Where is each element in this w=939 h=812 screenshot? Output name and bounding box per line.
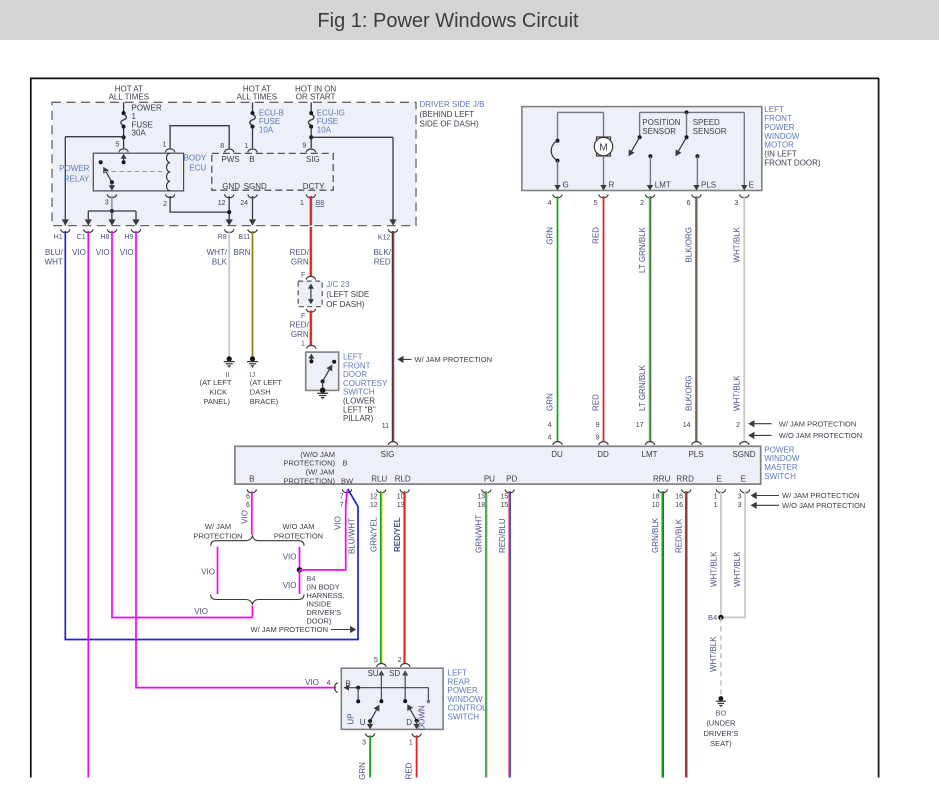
svg-text:MOTOR: MOTOR bbox=[764, 141, 794, 150]
wire: VIO right branch lower bbox=[299, 570, 301, 594]
svg-text:7: 7 bbox=[340, 502, 344, 509]
svg-text:J/C 23: J/C 23 bbox=[326, 280, 350, 289]
svg-text:3: 3 bbox=[738, 493, 742, 500]
svg-text:POWER: POWER bbox=[59, 164, 89, 173]
svg-text:5: 5 bbox=[594, 200, 598, 207]
body ECU GND terminal bbox=[218, 182, 240, 207]
svg-text:LEFT: LEFT bbox=[764, 105, 784, 114]
svg-text:GRN/WHT: GRN/WHT bbox=[475, 515, 484, 553]
svg-text:RED/BLK: RED/BLK bbox=[674, 518, 683, 553]
svg-text:SENSOR: SENSOR bbox=[642, 127, 676, 136]
svg-text:B: B bbox=[343, 459, 348, 468]
svg-text:VIO: VIO bbox=[201, 567, 215, 576]
svg-text:2: 2 bbox=[398, 657, 402, 664]
svg-text:SIG: SIG bbox=[306, 155, 320, 164]
svg-text:PROTECTION: PROTECTION bbox=[193, 531, 242, 540]
svg-text:BLK: BLK bbox=[212, 257, 228, 266]
svg-text:W/ JAM: W/ JAM bbox=[205, 522, 231, 531]
svg-text:U: U bbox=[360, 718, 366, 727]
svg-text:10A: 10A bbox=[317, 125, 332, 134]
wire: DCTY red/grn inside J/B bbox=[311, 196, 312, 226]
svg-text:WINDOW: WINDOW bbox=[764, 454, 800, 463]
svg-text:WINDOW: WINDOW bbox=[448, 695, 484, 704]
svg-text:4: 4 bbox=[548, 200, 552, 207]
svg-text:COURTESY: COURTESY bbox=[343, 379, 388, 388]
connector H1 bbox=[54, 219, 70, 241]
svg-text:SGND: SGND bbox=[244, 182, 267, 191]
svg-text:7: 7 bbox=[340, 493, 344, 500]
svg-text:H8: H8 bbox=[100, 234, 109, 241]
svg-text:9: 9 bbox=[596, 434, 600, 441]
svg-text:BLU/: BLU/ bbox=[45, 248, 64, 257]
label: WHT/BLK (dashed) bbox=[709, 636, 718, 672]
rear switch bottom connectors bbox=[366, 734, 422, 737]
ground BO (UNDER DRIVERS SEAT) bbox=[704, 696, 739, 748]
fuse ECU-IG FUSE 10A bbox=[308, 102, 344, 148]
label: RED (lower) bbox=[592, 394, 601, 411]
label: LEFT REAR POWER WINDOW CONTROL SWITCH bbox=[448, 668, 488, 721]
label: VIO (BW drop) bbox=[334, 516, 343, 530]
label: BLK/ORG (upper) bbox=[685, 227, 694, 263]
brace (bottom) bbox=[211, 594, 304, 604]
svg-text:H9: H9 bbox=[124, 234, 133, 241]
wire: R8 WHT/BLK to ground II bbox=[227, 231, 232, 362]
label: BLU/WHT (BW wire) bbox=[347, 518, 356, 554]
motor bottom connectors bbox=[553, 194, 749, 197]
label: WHT/BLK (lower) bbox=[732, 375, 741, 411]
rear switch B connector bbox=[335, 679, 351, 692]
svg-text:4: 4 bbox=[327, 680, 331, 687]
svg-text:DD: DD bbox=[597, 450, 609, 459]
svg-text:DU: DU bbox=[551, 450, 563, 459]
svg-text:2: 2 bbox=[163, 201, 167, 208]
svg-text:1: 1 bbox=[163, 142, 167, 149]
svg-text:E: E bbox=[717, 474, 722, 483]
wire: B VIO to brace bbox=[251, 491, 253, 535]
svg-text:BO: BO bbox=[715, 709, 726, 718]
svg-text:9: 9 bbox=[302, 143, 306, 150]
svg-text:REAR: REAR bbox=[448, 677, 470, 686]
rear switch SU lever bbox=[367, 670, 385, 729]
svg-text:VIO: VIO bbox=[305, 678, 319, 687]
svg-text:GRN: GRN bbox=[291, 258, 309, 267]
svg-text:H1: H1 bbox=[54, 234, 63, 241]
annotation: W/ JAM PROTECTION (SIG wire) bbox=[397, 355, 492, 364]
ground II (AT LEFT KICK PANEL) bbox=[200, 362, 235, 406]
svg-text:RELAY: RELAY bbox=[64, 174, 90, 183]
svg-text:F: F bbox=[301, 272, 305, 279]
svg-text:GRN/YEL: GRN/YEL bbox=[370, 516, 379, 552]
speed sensor switch bbox=[676, 112, 700, 190]
wire: relay pin 2 to GND junction bbox=[170, 196, 229, 212]
wire: LMT LT GRN/BLK to LMT bbox=[650, 196, 651, 442]
svg-text:18: 18 bbox=[477, 502, 485, 509]
motor pin numbers bbox=[548, 200, 739, 207]
svg-text:RRU: RRU bbox=[653, 474, 671, 483]
body ECU pin 9 SIG bbox=[302, 143, 319, 164]
wire: U GRN down bbox=[369, 735, 371, 777]
label: WHT/BLK (upper) bbox=[732, 226, 741, 262]
wire: H8 VIO to brace tail bbox=[112, 231, 252, 618]
wire: PD RED/BLU bbox=[509, 491, 510, 777]
left front door courtesy switch box bbox=[306, 345, 339, 390]
svg-text:12: 12 bbox=[370, 493, 378, 500]
svg-text:WHT/: WHT/ bbox=[207, 248, 228, 257]
wire: E1 WHT/BLK to B4 bbox=[720, 491, 722, 617]
left front power window motor box bbox=[522, 107, 762, 191]
rear switch top connectors bbox=[377, 664, 410, 667]
svg-text:PROTECTION): PROTECTION) bbox=[283, 476, 335, 485]
label: LT GRN/BLK (lower) bbox=[638, 364, 647, 411]
wire: E WHT/BLK to SGND bbox=[743, 196, 745, 442]
relay pin 5 connector bbox=[115, 142, 128, 153]
svg-text:1: 1 bbox=[714, 493, 718, 500]
label: VIO (H8) bbox=[96, 248, 110, 257]
svg-text:SWITCH: SWITCH bbox=[448, 713, 480, 722]
position sensor switch bbox=[629, 112, 654, 190]
svg-text:D: D bbox=[406, 718, 412, 727]
motor E wire bbox=[741, 112, 747, 190]
svg-text:VIO: VIO bbox=[72, 248, 86, 257]
label: HOT IN ON OR START (ECU-IG fuse) bbox=[295, 84, 336, 101]
svg-text:GRN/BLK: GRN/BLK bbox=[651, 517, 660, 553]
wire: VIO left branch bbox=[217, 547, 219, 594]
svg-text:RED: RED bbox=[592, 394, 601, 411]
label: GRN/WHT bbox=[475, 515, 484, 553]
svg-text:WHT/BLK: WHT/BLK bbox=[732, 226, 741, 262]
label: RED/BLU bbox=[498, 518, 507, 553]
svg-text:W/ JAM PROTECTION: W/ JAM PROTECTION bbox=[415, 355, 493, 364]
svg-text:SWITCH: SWITCH bbox=[343, 388, 375, 397]
relay pin 2 connector bbox=[163, 194, 175, 208]
svg-text:SENSOR: SENSOR bbox=[693, 127, 727, 136]
svg-text:E: E bbox=[749, 181, 754, 190]
label: VIO (right branch upper) bbox=[283, 553, 297, 562]
svg-text:LEFT: LEFT bbox=[448, 668, 468, 677]
svg-text:RED/: RED/ bbox=[290, 320, 310, 329]
svg-text:(AT LEFT: (AT LEFT bbox=[200, 378, 232, 387]
label: UP U bbox=[346, 713, 365, 726]
svg-text:PD: PD bbox=[506, 474, 517, 483]
label: B4 (IN BODY HARNESS INSIDE DRIVERS DOOR) bbox=[306, 574, 344, 626]
svg-text:RED/: RED/ bbox=[290, 248, 310, 257]
wire: VIO from B4 to BW bbox=[300, 491, 348, 570]
svg-text:(W/ JAM: (W/ JAM bbox=[306, 468, 335, 477]
wire: G GRN to DU bbox=[557, 196, 559, 442]
svg-text:(W/O JAM: (W/O JAM bbox=[300, 450, 335, 459]
svg-text:30A: 30A bbox=[132, 129, 147, 138]
wire: RRU GRN/BLK bbox=[662, 491, 663, 777]
svg-text:FRONT: FRONT bbox=[343, 361, 371, 370]
svg-text:12: 12 bbox=[218, 200, 226, 207]
svg-text:ALL TIMES: ALL TIMES bbox=[109, 93, 149, 102]
svg-text:DOOR: DOOR bbox=[343, 370, 367, 379]
svg-text:6: 6 bbox=[246, 502, 250, 509]
svg-text:GRN: GRN bbox=[291, 330, 309, 339]
wire: C1 VIO down (cut off) bbox=[87, 231, 89, 778]
connector K12 bbox=[378, 229, 398, 242]
pins above rear switch bbox=[374, 657, 402, 664]
svg-text:RED/YEL: RED/YEL bbox=[393, 517, 402, 552]
svg-text:SIG: SIG bbox=[381, 450, 395, 459]
svg-text:ALL TIMES: ALL TIMES bbox=[237, 93, 277, 102]
svg-text:8: 8 bbox=[220, 143, 224, 150]
ground IJ (AT LEFT DASH BRACE) bbox=[247, 362, 282, 406]
svg-text:1: 1 bbox=[301, 340, 305, 347]
svg-text:5: 5 bbox=[374, 657, 378, 664]
svg-text:10: 10 bbox=[397, 493, 405, 500]
body ECU box (dashed) bbox=[212, 153, 333, 190]
svg-text:1: 1 bbox=[300, 200, 304, 207]
svg-text:VIO: VIO bbox=[241, 510, 250, 524]
wire: relay pin 3 branch to C1 H8 H9 bbox=[85, 196, 140, 226]
svg-text:POWER: POWER bbox=[764, 445, 794, 454]
label: GRN/BLK bbox=[651, 517, 660, 553]
svg-text:W/O JAM PROTECTION: W/O JAM PROTECTION bbox=[782, 501, 865, 510]
svg-text:B4: B4 bbox=[708, 613, 717, 622]
label: F (upper) bbox=[301, 272, 305, 279]
master switch bottom connectors bbox=[247, 489, 750, 492]
svg-text:4: 4 bbox=[548, 422, 552, 429]
svg-text:11: 11 bbox=[382, 423, 389, 430]
label: J/C 23 (LEFT SIDE OF DASH) bbox=[326, 280, 369, 309]
svg-text:RED: RED bbox=[374, 258, 391, 267]
svg-text:B: B bbox=[249, 474, 254, 483]
svg-text:SD: SD bbox=[389, 669, 400, 678]
svg-text:VIO: VIO bbox=[283, 553, 297, 562]
svg-text:PWS: PWS bbox=[221, 155, 239, 164]
svg-text:WHT/BLK: WHT/BLK bbox=[733, 551, 742, 587]
svg-text:15: 15 bbox=[501, 493, 509, 500]
label: POWER WINDOW MASTER SWITCH bbox=[764, 445, 800, 481]
node B4 (under seat harness) bbox=[708, 613, 724, 622]
svg-text:18: 18 bbox=[652, 493, 660, 500]
label: RED/YEL bbox=[393, 517, 402, 552]
svg-text:W/ JAM PROTECTION: W/ JAM PROTECTION bbox=[782, 491, 860, 500]
body ECU pin 1 B bbox=[244, 143, 257, 164]
svg-text:WHT/BLK: WHT/BLK bbox=[732, 375, 741, 411]
svg-text:LT GRN/BLK: LT GRN/BLK bbox=[638, 364, 647, 411]
svg-text:3: 3 bbox=[362, 740, 366, 747]
master switch top connectors bbox=[553, 442, 749, 445]
svg-text:LEFT "B": LEFT "B" bbox=[343, 405, 376, 414]
svg-text:RLD: RLD bbox=[395, 474, 411, 483]
relay contact from pin 5 bbox=[121, 154, 127, 165]
svg-text:DASH: DASH bbox=[250, 388, 271, 397]
label: DRIVER SIDE J/B (BEHIND LEFT SIDE OF DASH) bbox=[420, 100, 485, 128]
wire: RLU GRN/YEL bbox=[381, 491, 382, 664]
svg-text:M: M bbox=[599, 142, 607, 153]
motor terminal labels bbox=[563, 181, 754, 190]
svg-text:(BEHIND LEFT: (BEHIND LEFT bbox=[420, 110, 475, 119]
motor M bbox=[594, 112, 612, 190]
relay mechanical link (dashed) bbox=[104, 171, 164, 173]
svg-text:VIO: VIO bbox=[334, 516, 343, 530]
power window master switch box bbox=[235, 446, 761, 484]
annotation: W/O JAM PROTECTION (E pins) bbox=[751, 501, 866, 510]
svg-text:VIO: VIO bbox=[120, 248, 134, 257]
label: LEFT FRONT POWER WINDOW MOTOR (IN LEFT FRONT DOOR) bbox=[764, 105, 821, 167]
label: WHT/BLK (E1) bbox=[709, 551, 718, 587]
svg-text:GRN: GRN bbox=[546, 393, 555, 411]
courtesy switch contacts bbox=[308, 354, 336, 391]
svg-text:2: 2 bbox=[736, 422, 740, 429]
svg-text:B: B bbox=[249, 155, 254, 164]
wire: RED/GRN to J/C 23 bbox=[311, 227, 312, 277]
svg-text:PROTECTION): PROTECTION) bbox=[283, 459, 335, 468]
svg-text:POWER: POWER bbox=[132, 104, 162, 113]
svg-text:9: 9 bbox=[596, 422, 600, 429]
label: GRN (upper) bbox=[546, 227, 555, 245]
svg-text:DCTY: DCTY bbox=[303, 182, 325, 191]
wire: B11 BRN to ground IJ bbox=[250, 231, 255, 362]
svg-text:F: F bbox=[301, 313, 305, 320]
svg-text:SIDE OF DASH): SIDE OF DASH) bbox=[420, 119, 479, 128]
svg-text:PANEL): PANEL) bbox=[203, 397, 230, 406]
svg-text:SPEED: SPEED bbox=[693, 118, 720, 127]
svg-text:(IN LEFT: (IN LEFT bbox=[764, 149, 797, 158]
label: BLK/ORG (lower) bbox=[685, 375, 694, 411]
svg-text:C1: C1 bbox=[77, 234, 86, 241]
svg-text:R8: R8 bbox=[218, 234, 227, 241]
svg-text:ECU: ECU bbox=[189, 163, 206, 172]
svg-text:3: 3 bbox=[105, 200, 109, 207]
svg-text:5: 5 bbox=[115, 142, 119, 149]
label: BODY ECU bbox=[184, 153, 207, 172]
svg-text:B11: B11 bbox=[238, 234, 250, 241]
wire: relay pin 1 to body ECU PWS bbox=[170, 126, 229, 149]
svg-text:R: R bbox=[609, 181, 615, 190]
svg-text:6: 6 bbox=[687, 200, 691, 207]
svg-text:PU: PU bbox=[484, 474, 495, 483]
svg-text:(UNDER: (UNDER bbox=[706, 719, 736, 728]
svg-text:POSITION: POSITION bbox=[642, 118, 680, 127]
label: HOT AT ALL TIMES (ECU-B fuse) bbox=[237, 84, 277, 101]
wire: RRD RED/BLK bbox=[686, 491, 687, 777]
label: SPEED SENSOR bbox=[693, 118, 727, 136]
connector B11 bbox=[238, 229, 257, 241]
svg-text:PLS: PLS bbox=[701, 181, 716, 190]
svg-text:2: 2 bbox=[640, 200, 644, 207]
svg-text:10: 10 bbox=[652, 502, 660, 509]
label: VIO (H9) bbox=[120, 248, 134, 257]
svg-text:BODY: BODY bbox=[184, 153, 207, 162]
svg-text:BLK/: BLK/ bbox=[374, 248, 392, 257]
svg-text:1: 1 bbox=[714, 502, 718, 509]
svg-text:BRN: BRN bbox=[234, 248, 251, 257]
connector H9 bbox=[124, 229, 140, 241]
label: BLK/RED (K12) bbox=[374, 248, 392, 267]
label: VIO (left branch) bbox=[201, 567, 215, 576]
svg-text:15: 15 bbox=[501, 502, 509, 509]
wire: H1 BLU/WHT to rear switch area bbox=[65, 231, 358, 640]
wire: K12 BLK/RED to master switch SIG bbox=[393, 231, 394, 442]
label: RED/BLK bbox=[674, 518, 683, 553]
connector C1 bbox=[77, 229, 93, 241]
svg-text:BW: BW bbox=[341, 476, 354, 485]
junction connector J/C 23 (dashed box) bbox=[298, 276, 322, 312]
label: RED/GRN (DCTY) bbox=[290, 248, 310, 267]
label: LEFT FRONT DOOR COURTESY SWITCH (LOWER LEFT B PILLAR) bbox=[343, 352, 388, 423]
wire: H9 VIO to rear switch B bbox=[136, 231, 336, 688]
label: VIO (H8 horizontal) bbox=[194, 607, 208, 616]
svg-text:OR START: OR START bbox=[296, 93, 336, 102]
svg-text:KICK: KICK bbox=[210, 388, 228, 397]
svg-text:LEFT: LEFT bbox=[343, 352, 363, 361]
svg-text:WHT: WHT bbox=[45, 257, 63, 266]
svg-text:16: 16 bbox=[675, 502, 683, 509]
body ECU SGND terminal bbox=[240, 182, 267, 207]
svg-text:LT GRN/BLK: LT GRN/BLK bbox=[638, 226, 647, 273]
svg-text:12: 12 bbox=[370, 502, 378, 509]
svg-text:W/ JAM PROTECTION: W/ JAM PROTECTION bbox=[251, 625, 329, 634]
pins below rear switch bbox=[362, 740, 413, 747]
wire: R RED to DD bbox=[603, 196, 605, 442]
svg-text:SU: SU bbox=[367, 669, 378, 678]
svg-text:K12: K12 bbox=[378, 235, 391, 242]
svg-text:BRACE): BRACE) bbox=[250, 397, 279, 406]
motor internal bus wires bbox=[558, 110, 745, 114]
label: D DOWN bbox=[406, 705, 426, 731]
svg-text:WINDOW: WINDOW bbox=[764, 132, 800, 141]
svg-text:DRIVER'S: DRIVER'S bbox=[704, 729, 739, 738]
svg-text:SEAT): SEAT) bbox=[710, 739, 732, 748]
wire: D RED down bbox=[416, 735, 418, 777]
connector H8 bbox=[100, 229, 116, 241]
svg-text:RRD: RRD bbox=[677, 474, 695, 483]
relay switch lever bbox=[99, 160, 115, 191]
svg-text:17: 17 bbox=[636, 422, 644, 429]
label: POSITION SENSOR bbox=[642, 118, 680, 136]
wire: WHT/BLK dashed to BO bbox=[720, 617, 722, 696]
title banner bbox=[0, 0, 939, 40]
svg-text:6: 6 bbox=[246, 493, 250, 500]
wire: PLS BLK/ORG to PLS bbox=[696, 196, 697, 442]
wire: E2 WHT/BLK to B4 bbox=[721, 491, 745, 617]
svg-text:RLU: RLU bbox=[371, 474, 387, 483]
master switch terminal names (top row) bbox=[381, 450, 756, 459]
svg-text:OF DASH): OF DASH) bbox=[326, 300, 365, 309]
fuse POWER 1 FUSE 30A bbox=[121, 102, 162, 148]
svg-text:BLK/ORG: BLK/ORG bbox=[685, 227, 694, 263]
left rear power window control switch box bbox=[341, 668, 443, 729]
svg-text:RED: RED bbox=[592, 227, 601, 244]
svg-text:1: 1 bbox=[409, 740, 413, 747]
svg-text:POWER: POWER bbox=[448, 686, 478, 695]
body ECU pin 8 PWS bbox=[220, 143, 239, 164]
label: W/ JAM PROTECTION (left brace) bbox=[193, 522, 242, 541]
pins above master switch bbox=[548, 422, 741, 442]
svg-text:PROTECTION: PROTECTION bbox=[274, 531, 323, 540]
wire: PU GRN/WHT bbox=[486, 491, 487, 777]
wire: RED/GRN to courtesy switch bbox=[311, 311, 312, 346]
svg-text:BLK/ORG: BLK/ORG bbox=[685, 375, 694, 411]
power relay box bbox=[93, 153, 183, 191]
label: GRN (lower) bbox=[546, 393, 555, 411]
svg-text:10A: 10A bbox=[259, 125, 274, 134]
svg-text:(AT LEFT: (AT LEFT bbox=[250, 378, 282, 387]
svg-text:LMT: LMT bbox=[642, 450, 658, 459]
svg-text:WHT/BLK: WHT/BLK bbox=[709, 551, 718, 587]
svg-text:1: 1 bbox=[244, 143, 248, 150]
pin 11 at SIG bbox=[382, 423, 389, 430]
wire: ECU-IG branch to K12 bbox=[311, 137, 397, 225]
label: RED (upper) bbox=[592, 227, 601, 244]
svg-text:SWITCH: SWITCH bbox=[764, 472, 796, 481]
brace (top) bbox=[211, 536, 304, 546]
svg-text:VIO: VIO bbox=[283, 581, 297, 590]
motor direction switch bbox=[551, 112, 561, 190]
